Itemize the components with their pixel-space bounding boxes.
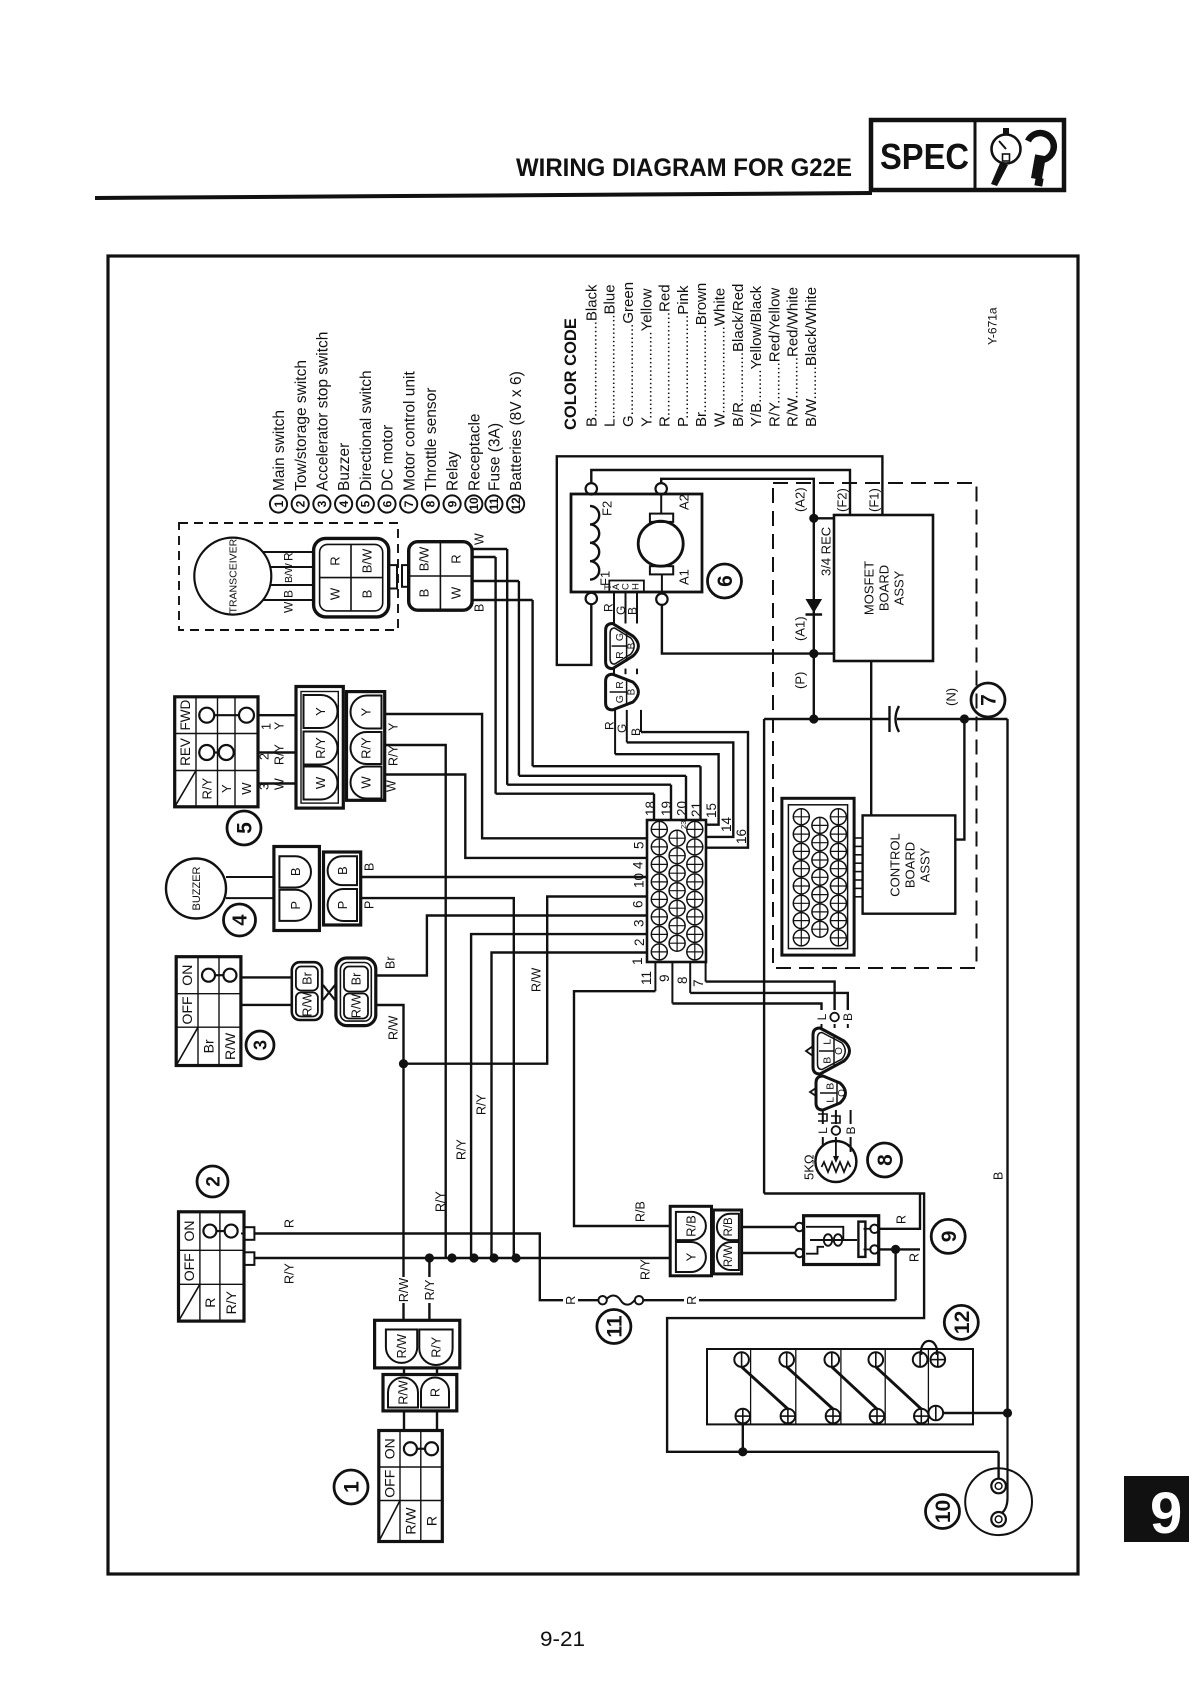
relay output to fuse line: [879, 1248, 920, 1250]
svg-text:Receptacle: Receptacle: [466, 413, 483, 491]
buzzer connector CN-D: [324, 852, 361, 925]
stubs to SW1: [403, 1411, 405, 1431]
svg-text:L: L: [824, 1097, 836, 1103]
svg-text:REV: REV: [178, 738, 193, 766]
dial gauge icon: [992, 135, 1021, 164]
circled 12: [944, 1305, 978, 1339]
R/W trunk to pin 6: [404, 897, 648, 1064]
svg-text:R: R: [908, 1253, 922, 1262]
header rule: [95, 193, 872, 198]
wire B to pin 10: [361, 876, 647, 878]
svg-text:Fuse (3A): Fuse (3A): [486, 423, 503, 491]
bus junction dots: [425, 1253, 434, 1262]
svg-text:Buzzer: Buzzer: [336, 443, 353, 491]
svg-text:ON: ON: [181, 1221, 197, 1242]
5K ohm resistor circle: [815, 1141, 856, 1182]
transceiver connector CN1: [314, 538, 389, 617]
DC motor box: [571, 494, 702, 592]
svg-text:Br: Br: [384, 957, 398, 970]
svg-text:R/W: R/W: [301, 992, 315, 1017]
circled 5: [227, 811, 261, 845]
pin bracket marks: [818, 1114, 827, 1121]
R/W junction: [399, 1059, 408, 1068]
svg-text:R: R: [449, 554, 464, 563]
control unit connector grid: [647, 820, 706, 962]
svg-text:P: P: [288, 901, 303, 910]
SW3 wires: [241, 976, 293, 978]
fuse wires: [643, 1299, 684, 1301]
svg-text:3: 3: [631, 919, 646, 927]
N drop to control board: [955, 719, 964, 840]
svg-text:R/Y: R/Y: [359, 737, 374, 759]
wire A1 to motor: [662, 605, 814, 654]
buzzer leads: [226, 876, 274, 878]
relay connector CN-R2: [713, 1210, 741, 1274]
P rail: [764, 718, 889, 720]
svg-text:P: P: [363, 901, 377, 909]
svg-text:A1: A1: [677, 569, 692, 585]
battery top terminals: [734, 1352, 749, 1367]
legend list items 1-12: [270, 495, 287, 512]
svg-text:9: 9: [657, 974, 672, 982]
svg-text:R/Y: R/Y: [313, 737, 328, 759]
svg-text:R/W: R/W: [222, 1032, 238, 1060]
relay box: [804, 1216, 879, 1265]
svg-text:Y.....................Yellow: Y.....................Yellow: [638, 288, 655, 427]
connector CN-G1 (R/W R/Y): [375, 1320, 460, 1368]
svg-text:FWD: FWD: [178, 700, 193, 731]
svg-text:R/Y..........Red/Yellow: R/Y..........Red/Yellow: [766, 288, 783, 427]
svg-text:L.........................Blue: L.........................Blue: [602, 284, 619, 427]
svg-text:R/W: R/W: [395, 1334, 409, 1359]
svg-text:B: B: [844, 1126, 858, 1134]
svg-text:8: 8: [675, 976, 690, 984]
svg-text:(F1): (F1): [867, 488, 882, 512]
receptacle circle (item 10): [965, 1468, 1032, 1535]
svg-text:OFF: OFF: [181, 1253, 197, 1281]
directional switch wires to connector: [258, 714, 296, 716]
MOSFET board assy box: [834, 515, 933, 661]
wire W to pin 4: [385, 775, 647, 858]
battery jumper arc: [921, 1341, 937, 1355]
svg-text:R/W..........Red/White: R/W..........Red/White: [785, 287, 802, 427]
relay feed: [879, 1194, 920, 1229]
svg-text:15: 15: [704, 803, 719, 818]
tow/storage switch SW2 (item 2): [179, 1212, 245, 1321]
svg-text:1: 1: [341, 1481, 364, 1493]
TACH stubs R G B: [613, 592, 615, 624]
sensor triangle connector T2: [816, 1076, 846, 1110]
SPEC box: [871, 120, 1064, 190]
svg-text:Br.....................Brown: Br.....................Brown: [693, 283, 710, 427]
CN1 tab: [389, 565, 397, 588]
mated X symbol: [323, 985, 335, 1000]
svg-text:23: 23: [679, 821, 688, 829]
svg-text:Main switch: Main switch: [271, 410, 288, 491]
svg-text:R/B: R/B: [723, 1217, 735, 1237]
motor loop wire A2: [661, 479, 814, 519]
svg-text:19: 19: [659, 801, 674, 816]
svg-text:O: O: [834, 1047, 845, 1055]
svg-text:A2: A2: [677, 494, 692, 510]
svg-text:3: 3: [258, 783, 272, 790]
svg-text:TRANSCEIVER: TRANSCEIVER: [228, 538, 240, 613]
wire pin 1 to bus: [492, 953, 648, 1259]
wire to P node: [813, 654, 815, 719]
svg-text:4: 4: [337, 500, 351, 507]
svg-text:O: O: [837, 1089, 848, 1097]
svg-text:12: 12: [951, 1311, 974, 1334]
svg-text:B: B: [335, 866, 350, 875]
svg-text:L: L: [816, 1127, 830, 1134]
T2 key notch: [810, 1088, 816, 1096]
svg-text:G: G: [614, 695, 626, 703]
svg-text:ON: ON: [381, 1438, 397, 1459]
svg-text:W.....................White: W.....................White: [712, 288, 729, 427]
svg-text:G......................Green: G......................Green: [620, 282, 637, 427]
svg-text:R/W: R/W: [402, 1507, 418, 1535]
micrometer icon: [1028, 133, 1054, 160]
accelerator stop switch SW3 (item 3): [176, 957, 241, 1066]
wire pin 2 to bus: [471, 934, 647, 1258]
svg-text:R: R: [564, 1296, 578, 1305]
chapter tab 9: [1124, 1476, 1189, 1542]
svg-text:B: B: [363, 863, 377, 871]
svg-text:R/B: R/B: [634, 1201, 648, 1222]
svg-text:B: B: [627, 642, 638, 649]
svg-text:11: 11: [487, 497, 501, 510]
grid bottom stubs: [654, 962, 656, 991]
transceiver leads: [263, 551, 314, 553]
svg-text:(A1): (A1): [793, 616, 808, 641]
svg-text:Relay: Relay: [445, 451, 462, 491]
battery series links: [742, 1367, 788, 1409]
circled 9: [931, 1219, 965, 1253]
svg-text:5: 5: [359, 500, 373, 507]
svg-text:8: 8: [874, 1154, 897, 1166]
svg-text:R/Y: R/Y: [434, 1191, 448, 1213]
svg-text:R/Y: R/Y: [423, 1279, 437, 1301]
triangle interstubs: [613, 669, 615, 675]
wire pin 8 to sensor B: [690, 993, 848, 1010]
svg-text:R/W: R/W: [723, 1245, 735, 1268]
svg-text:16: 16: [734, 829, 749, 844]
svg-text:R/Y: R/Y: [429, 1336, 443, 1358]
hatch links to board: [854, 837, 863, 839]
bus drop to connector R/Y: [428, 1258, 430, 1277]
control board assy box: [863, 815, 956, 913]
svg-text:B: B: [841, 1013, 855, 1021]
buzzer connector CN-C: [274, 847, 320, 931]
svg-text:R: R: [283, 1219, 297, 1228]
battery stub to feed: [742, 1423, 744, 1451]
svg-text:20: 20: [675, 801, 690, 816]
svg-text:W: W: [385, 780, 399, 792]
diode 3/4 REC: [813, 518, 815, 653]
relay connector CN-R1: [670, 1206, 711, 1276]
svg-text:W: W: [449, 586, 464, 599]
svg-text:14: 14: [719, 816, 734, 832]
svg-text:5: 5: [631, 841, 646, 849]
svg-text:9-21: 9-21: [540, 1628, 585, 1651]
svg-text:B/R............Black/Red: B/R............Black/Red: [730, 284, 747, 427]
svg-text:12: 12: [509, 497, 523, 511]
circled 10: [926, 1495, 960, 1529]
grid top stubs 18 19 20 21: [653, 794, 655, 820]
wire B to pin 16: [641, 732, 748, 848]
P rail right: [897, 718, 1008, 720]
connector CN-G2 (R/W R): [383, 1375, 457, 1411]
svg-text:COLOR CODE: COLOR CODE: [562, 318, 580, 430]
svg-text:B: B: [629, 728, 643, 736]
wire R/W upper segment: [376, 1005, 404, 1064]
svg-text:B: B: [288, 868, 303, 877]
svg-text:W: W: [273, 778, 287, 790]
svg-text:Batteries (8V x 6): Batteries (8V x 6): [508, 371, 525, 491]
svg-text:6: 6: [380, 500, 394, 507]
svg-text:B: B: [625, 607, 639, 615]
svg-text:B: B: [627, 688, 638, 695]
svg-text:CONTROL: CONTROL: [888, 833, 903, 897]
svg-text:Y: Y: [359, 707, 374, 716]
motor loop wire F1 to MOSFET F1: [557, 456, 883, 665]
buzzer circle (item 4): [166, 859, 226, 919]
svg-text:R.........................Red: R.........................Red: [657, 284, 674, 427]
svg-text:OFF: OFF: [179, 996, 195, 1024]
P rail drop west side: [763, 719, 765, 1194]
svg-text:Tow/storage switch: Tow/storage switch: [293, 360, 310, 491]
svg-text:10: 10: [932, 1500, 955, 1523]
svg-text:R/W: R/W: [350, 994, 364, 1019]
transceiver circle: [194, 538, 271, 615]
svg-text:BOARD: BOARD: [877, 565, 892, 611]
relay terminals: [795, 1223, 803, 1231]
svg-text:R/Y: R/Y: [639, 1259, 653, 1281]
svg-text:W: W: [328, 587, 343, 600]
circled 2: [197, 1166, 228, 1197]
svg-text:B.......................Black: B.......................Black: [583, 284, 600, 427]
svg-text:R: R: [424, 1516, 440, 1526]
svg-text:Y: Y: [684, 1252, 699, 1261]
svg-text:1: 1: [272, 500, 286, 507]
battery output to B trunk: [943, 1412, 1007, 1414]
svg-text:R: R: [328, 556, 343, 565]
svg-text:B: B: [821, 1057, 833, 1064]
circled 6: [708, 564, 742, 598]
triangle lower stubs R G B: [614, 710, 616, 754]
svg-text:(A2): (A2): [793, 487, 808, 512]
directional switch SW5 (item 5) table: [175, 697, 258, 807]
svg-text:L: L: [815, 1013, 829, 1020]
circled 7: [971, 683, 1005, 717]
svg-text:B/W: B/W: [360, 548, 375, 573]
svg-text:R/W: R/W: [397, 1278, 411, 1303]
svg-text:Directional switch: Directional switch: [358, 370, 375, 491]
junction A1: [809, 649, 818, 658]
wire pin 7 to sensor O: [706, 982, 835, 1010]
mating connector CN2: [409, 542, 472, 611]
TACH box: [609, 581, 644, 592]
svg-text:B: B: [417, 589, 432, 598]
svg-text:B: B: [992, 1172, 1006, 1180]
svg-text:Y: Y: [387, 722, 401, 731]
svg-text:Throttle sensor: Throttle sensor: [423, 388, 440, 491]
svg-text:Y: Y: [313, 707, 328, 716]
svg-text:R/Y: R/Y: [223, 1290, 239, 1314]
motor triangle connector R|G B: [606, 674, 639, 710]
svg-text:5: 5: [234, 822, 257, 834]
svg-text:11: 11: [603, 1315, 626, 1338]
svg-text:R: R: [429, 1388, 443, 1397]
wire pin 9 to sensor L: [672, 1004, 821, 1011]
svg-text:R/Y: R/Y: [199, 777, 214, 799]
T2 lower stubs: [822, 1110, 824, 1124]
wires CN-R2 to relay: [742, 1226, 796, 1228]
SW3 connector CN-E: [292, 962, 322, 1020]
svg-text:9: 9: [938, 1231, 961, 1243]
battery bank box: [707, 1349, 973, 1424]
svg-text:4: 4: [230, 914, 252, 926]
T1 key notch: [806, 1046, 813, 1056]
receptacle terminals: [991, 1479, 1006, 1494]
svg-text:B: B: [360, 590, 375, 599]
directional connector CN-B: [347, 692, 385, 801]
svg-text:F1: F1: [598, 571, 613, 586]
SW2 terminal tabs: [244, 1227, 254, 1240]
R/W trunk down to connector: [402, 1064, 404, 1277]
svg-text:11: 11: [639, 971, 654, 985]
N node: [960, 714, 969, 723]
svg-text:ASSY: ASSY: [892, 570, 907, 605]
CN2 output wires to control unit pins 18-21: [472, 548, 507, 550]
circled 11: [597, 1310, 631, 1344]
relay contact bar: [858, 1222, 865, 1257]
svg-text:R/Y: R/Y: [283, 1263, 297, 1285]
svg-text:3/4 REC: 3/4 REC: [819, 527, 834, 576]
svg-text:Br: Br: [201, 1039, 217, 1053]
SW2 R wire to fuse: [254, 1234, 563, 1301]
svg-text:Y: Y: [219, 784, 234, 793]
motor loop wire F2 to MOSFET F2: [591, 470, 850, 515]
svg-text:6: 6: [631, 900, 646, 908]
svg-text:R/Y: R/Y: [455, 1139, 469, 1161]
svg-text:(P): (P): [793, 672, 808, 689]
svg-text:Motor control unit: Motor control unit: [401, 371, 418, 491]
svg-text:W: W: [239, 782, 254, 795]
svg-text:Y/B........Yellow/Black: Y/B........Yellow/Black: [748, 285, 765, 427]
battery bottom terminals: [736, 1409, 751, 1424]
svg-text:18: 18: [643, 801, 658, 816]
capacitor: [888, 706, 890, 732]
CN2 tab: [402, 565, 409, 587]
SW3 connector CN-F: [336, 958, 376, 1026]
svg-text:7: 7: [691, 979, 706, 987]
svg-text:1: 1: [260, 723, 274, 730]
svg-text:1: 1: [630, 957, 645, 965]
junction A2: [809, 514, 818, 523]
svg-text:ON: ON: [179, 965, 195, 986]
wire pin 11 to R/B trunk: [574, 991, 670, 1226]
armature: [638, 521, 683, 566]
control board connector grid: [782, 798, 854, 955]
svg-text:10: 10: [467, 497, 481, 511]
svg-text:7: 7: [402, 500, 416, 507]
svg-text:Br: Br: [350, 973, 364, 986]
svg-text:BOARD: BOARD: [903, 842, 918, 888]
P node: [809, 714, 818, 723]
svg-text:F2: F2: [600, 501, 615, 516]
svg-text:R: R: [202, 1298, 218, 1308]
diagram border frame: [108, 256, 1078, 1574]
svg-text:7: 7: [978, 694, 1001, 706]
field coil: [590, 506, 599, 580]
svg-text:G: G: [615, 724, 629, 733]
main switch SW1 (item 1): [379, 1431, 443, 1542]
motor terminals: [586, 483, 597, 494]
svg-text:B/W........Black/White: B/W........Black/White: [803, 287, 820, 427]
svg-text:6: 6: [714, 575, 737, 587]
svg-text:ASSY: ASSY: [918, 847, 933, 882]
svg-text:3: 3: [250, 1040, 270, 1050]
svg-text:P.........................Pink: P.........................Pink: [675, 285, 692, 427]
svg-text:G: G: [614, 633, 626, 641]
svg-text:W: W: [313, 776, 328, 789]
svg-text:8: 8: [424, 500, 438, 507]
svg-text:R/W: R/W: [530, 968, 544, 993]
svg-text:Accelerator stop switch: Accelerator stop switch: [314, 332, 331, 491]
svg-text:SPEC: SPEC: [880, 136, 969, 177]
wire R/Y trunk to bus: [385, 745, 446, 1258]
svg-text:B: B: [281, 590, 295, 598]
wire R to pin 15: [615, 754, 719, 825]
svg-text:3: 3: [315, 500, 329, 507]
svg-text:2: 2: [258, 753, 272, 760]
svg-text:R/Y: R/Y: [387, 745, 401, 767]
svg-text:Y-671a: Y-671a: [985, 307, 999, 345]
svg-text:R/W: R/W: [387, 1016, 401, 1041]
svg-text:B: B: [473, 604, 487, 612]
svg-text:Br: Br: [301, 972, 315, 985]
svg-text:OFF: OFF: [381, 1470, 397, 1498]
svg-text:(F2): (F2): [835, 488, 850, 512]
svg-text:W: W: [359, 776, 374, 789]
svg-text:2: 2: [632, 938, 647, 946]
svg-text:MOSFET: MOSFET: [862, 561, 877, 615]
svg-text:5KΩ: 5KΩ: [802, 1154, 817, 1180]
receptacle feed: [997, 1452, 999, 1479]
svg-text:R/Y: R/Y: [273, 744, 287, 766]
svg-text:R/Y: R/Y: [475, 1094, 489, 1116]
svg-text:R: R: [685, 1296, 699, 1305]
circled 3: [246, 1031, 274, 1059]
svg-text:21: 21: [689, 802, 704, 817]
transceiver dashed enclosure: [179, 523, 398, 630]
R/Y bus from SW2: [254, 1257, 670, 1259]
relay coil: [806, 1227, 843, 1240]
MOSFET to control board link: [870, 661, 872, 815]
svg-text:P: P: [335, 901, 350, 910]
sensor triangle connector T1: [813, 1028, 850, 1074]
fuse symbol: [598, 1296, 606, 1304]
wire G to pin 14: [627, 742, 734, 837]
svg-text:2: 2: [203, 1176, 224, 1187]
wire Br to pin 3: [376, 916, 647, 976]
wire P trunk to bus: [361, 898, 514, 1258]
motor triangle connector G|R B: [606, 624, 639, 669]
svg-text:9: 9: [1150, 1481, 1182, 1546]
svg-text:4: 4: [631, 861, 646, 869]
svg-text:L: L: [821, 1039, 833, 1045]
